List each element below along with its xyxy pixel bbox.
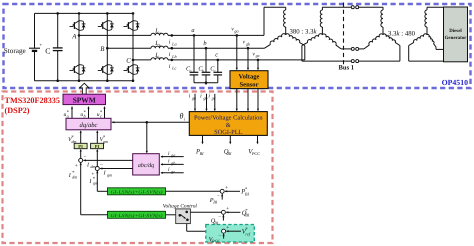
IGBT Q3 (phase B upper) [98, 21, 114, 31]
svg-text:SPWM: SPWM [73, 95, 96, 104]
svg-text:3.3k : 480: 3.3k : 480 [388, 30, 416, 37]
svg-text:c: c [159, 55, 161, 60]
wire Q*BI reference input [226, 211, 241, 213]
wire G2 output to S1 (I*dm) [80, 163, 108, 215]
node dot DC rail / cap top [56, 12, 59, 15]
wire u* gate reference [103, 106, 105, 118]
igc input label [168, 167, 175, 174]
current marker iLa [169, 34, 177, 46]
C label [45, 46, 50, 55]
vga label [231, 27, 238, 34]
I_dm label [86, 162, 95, 169]
svg-text:b: b [159, 43, 161, 48]
svg-text:ga: ga [234, 28, 238, 33]
wire iga measurement [194, 94, 196, 112]
svg-text:C: C [45, 46, 50, 55]
P*BI label [240, 187, 249, 197]
wire phase b from inverter to inductor [107, 47, 151, 49]
Q_BI feedback label [211, 218, 219, 226]
inverter leg 2 vertical wire [106, 13, 108, 80]
wire igb measurement [205, 94, 207, 112]
Voltage Sensor block [230, 71, 268, 89]
wire phase a after inductor [168, 34, 264, 36]
380:3.3k ratio label [290, 29, 318, 36]
wire vga sense tap [236, 35, 238, 70]
wire theta_i from PLL to dq/abc [112, 121, 190, 123]
svg-text:380 : 3.3k: 380 : 3.3k [290, 29, 318, 36]
svg-text:gb: gb [171, 160, 175, 165]
current marker iLb [169, 47, 177, 59]
S1 minus sign [83, 154, 86, 160]
PR controller G1 (active power loop) [108, 188, 166, 196]
node b dot [205, 47, 208, 50]
wire Q_BI feedback into S4 [222, 215, 224, 221]
svg-text:+: + [226, 206, 229, 212]
wire T2 primary top riser [382, 7, 384, 10]
3.3k:480 ratio label [388, 30, 416, 37]
svg-text:GI-LSN(s)+GI-SVN(s): GI-LSN(s)+GI-SVN(s) [111, 190, 163, 196]
vgc sense tap dot [257, 59, 260, 62]
svg-text:a: a [189, 68, 191, 73]
vgb label [243, 40, 250, 47]
node B dot [106, 47, 109, 50]
wire T2 primary riser to bottom link [399, 46, 401, 62]
storage battery branch wire upper [34, 13, 36, 48]
wire junction1 to PI1 [80, 149, 82, 159]
svg-text:OP4510: OP4510 [442, 78, 469, 87]
theta line junction dot [146, 121, 149, 124]
wire V*dm from PI1 to dq/abc [80, 130, 82, 143]
svg-text:c: c [215, 52, 218, 59]
wire voltage sensor output [236, 89, 238, 112]
I_qm label [103, 171, 112, 178]
wire phase c from inverter to inductor [133, 59, 151, 61]
node a dot [193, 34, 196, 37]
transformer T1 primary winding (wye) [265, 7, 305, 48]
node A label [71, 33, 77, 40]
capacitor Ca bottom wire [193, 75, 195, 83]
S2 plus sign [91, 171, 94, 177]
svg-text:b: b [202, 68, 204, 73]
wire V_PCC feedback into S5 [223, 234, 225, 239]
transformer T1 secondary winding (wye) [302, 7, 341, 49]
S5 minus sign [218, 234, 221, 239]
wire igb into abc/dq [160, 163, 183, 165]
wire DC bottom rail [35, 80, 134, 82]
wire V*ref reference input [226, 230, 241, 232]
capacitor Ca [190, 72, 199, 75]
svg-text:C: C [126, 58, 131, 65]
vga sense tap dot [236, 34, 239, 37]
wire I_qm from abc/dq to S2 [100, 167, 133, 169]
abc/dq block [133, 154, 160, 175]
capacitor Cc [214, 72, 223, 75]
wire Bus1 bottom link with breaker [302, 60, 400, 63]
wire vgb sense tap [247, 48, 249, 70]
igb label [200, 94, 207, 101]
igb input label [168, 159, 175, 166]
wire P_BI feedback into S3 [221, 194, 223, 200]
vgc label [252, 51, 259, 58]
svg-text:−: − [217, 194, 220, 199]
wire I_dm from abc/dq to S1 [83, 159, 133, 161]
summing junction S1 (d-axis current) [79, 158, 83, 162]
svg-text:La: La [171, 41, 176, 46]
svg-text:c: c [214, 68, 216, 73]
junction dot bottom rail [78, 79, 81, 82]
svg-text:Voltage: Voltage [238, 73, 259, 80]
wire vgc sense tap [257, 60, 259, 71]
DC-link capacitor branch wire lower [57, 51, 59, 81]
capacitor Cb bottom wire [205, 75, 207, 83]
OP4510 label [442, 78, 469, 87]
svg-text:Bus 1: Bus 1 [339, 65, 355, 72]
junction dot bottom rail [106, 79, 109, 82]
wire phase c after inductor [168, 59, 305, 61]
u*_b label [80, 109, 86, 118]
IGBT Q5 (phase C upper) [124, 21, 140, 31]
inductor Lc [151, 58, 168, 60]
u*_c label [97, 109, 103, 118]
wire switch lower input from V error [187, 224, 222, 232]
P_BI output label [195, 148, 204, 156]
mode selector switch SW1 [176, 209, 191, 224]
inductor La [151, 33, 168, 35]
svg-text:GI-LSN(s)+GI-SVN(s): GI-LSN(s)+GI-SVN(s) [111, 213, 163, 219]
svg-text:+: + [225, 185, 228, 191]
svg-text:Generator: Generator [445, 35, 468, 41]
Cb label [198, 66, 204, 74]
svg-text:Sensor: Sensor [239, 81, 258, 88]
TMS320F28335 DSP2 controller boundary (red dashed box) [3, 92, 273, 244]
V*ref label [242, 227, 251, 237]
wire Q_BI output [229, 135, 231, 144]
V_PCC feedback label [209, 236, 221, 244]
summing junction S4 (reactive power) [221, 210, 225, 214]
Bus 1 label [339, 65, 355, 72]
capacitor Cb [202, 72, 211, 75]
svg-text:SOGI-PLL: SOGI-PLL [214, 129, 242, 136]
wire capacitor common bus [194, 82, 218, 84]
wire junction2 to PI2 [96, 149, 98, 167]
svg-text:a: a [191, 27, 194, 34]
voltage reference box (teal dashed) [206, 225, 255, 243]
svg-text:Lb: Lb [171, 54, 176, 59]
PI controller PI2 [91, 143, 104, 149]
svg-text:−: − [100, 162, 103, 168]
wire T1 secondary riser to bottom link [301, 46, 303, 62]
wire T2 secondary left riser + bottom link [409, 46, 444, 62]
capacitor Ca top wire [193, 35, 195, 72]
svg-text:dq/abc: dq/abc [80, 122, 98, 129]
node c dot [217, 59, 220, 62]
svg-text:BI: BI [227, 151, 232, 156]
wire DC top rail [35, 12, 134, 14]
svg-text:gb: gb [203, 95, 207, 100]
transformer T2 secondary winding (wye) [409, 7, 436, 47]
storage battery branch wire lower [34, 51, 36, 81]
wire G1 output to S2 (I*qm) [96, 171, 107, 192]
S4 plus sign [226, 206, 229, 212]
svg-text:BI: BI [213, 200, 218, 205]
node B label [100, 46, 104, 53]
transformer T2 primary winding (wye) [364, 7, 400, 49]
Q*BI label [242, 208, 250, 218]
Voltage Control label [163, 203, 198, 209]
wire igc measurement [214, 94, 216, 112]
wire theta_i to abc/dq [146, 122, 148, 153]
node c label [215, 52, 218, 59]
svg-text:a: a [159, 30, 161, 35]
current marker iLc [169, 59, 177, 71]
wire T2 secondary top link [427, 6, 444, 8]
PR controller G2 (reactive/voltage loop) [108, 211, 166, 219]
summing junction S5 (voltage loop) [222, 229, 226, 233]
wire T1 primary phase-c riser [304, 46, 306, 60]
Lc label [154, 52, 161, 60]
node b label [203, 40, 206, 47]
TMS320F28335 (DSP2) label [5, 96, 61, 115]
vgb sense tap dot [247, 47, 250, 50]
node dot DC rail / cap bottom [56, 79, 59, 82]
svg-text:+: + [75, 163, 78, 169]
inductor Lb [151, 46, 168, 48]
S1 plus sign [75, 163, 78, 169]
wire V*qm from PI2 to dq/abc [96, 130, 98, 143]
capacitor C (DC link) [53, 48, 63, 51]
svg-text:PCC: PCC [251, 151, 260, 156]
svg-text:−: − [83, 154, 86, 160]
svg-text:ga: ga [171, 153, 175, 158]
dq/abc block [66, 118, 111, 130]
svg-text:PI: PI [78, 144, 83, 149]
svg-text:Lc: Lc [171, 66, 176, 71]
V_PCC output label [248, 148, 260, 156]
Lb label [154, 40, 161, 48]
node A dot [78, 34, 81, 37]
wire u* gate reference [87, 106, 89, 118]
gate signal hollow arrow SPWM to inverter [80, 83, 89, 94]
wire phase b after inductor [168, 47, 265, 49]
wire T2 secondary right link [436, 47, 444, 49]
svg-text:PCC: PCC [211, 239, 220, 244]
svg-text:TMS320F28335: TMS320F28335 [5, 96, 61, 105]
svg-text:&: & [226, 122, 231, 129]
inverter leg 3 vertical wire [132, 13, 134, 80]
DC-link capacitor branch wire upper [57, 13, 59, 48]
svg-text:+: + [226, 225, 229, 231]
IGBT Q1 (phase A upper) [70, 21, 86, 31]
summing junction S2 (q-axis current) [95, 167, 99, 171]
wire u* gate reference [71, 106, 73, 118]
IGBT Q4 (phase B lower) [98, 65, 114, 75]
inverter leg 1 vertical wire [78, 13, 80, 80]
svg-text:+: + [39, 44, 42, 49]
S4 minus sign [218, 215, 221, 220]
wire phase a from inverter to inductor [79, 34, 151, 36]
wire Bus1 middle link with breaker [341, 47, 364, 50]
wire voltage sensor output [257, 89, 259, 112]
OP4510 real-time simulator boundary (blue dashed box) [4, 4, 471, 88]
Diesel Generator box [444, 7, 468, 62]
capacitor Cc bottom wire [217, 75, 219, 83]
S5 plus sign [226, 225, 229, 231]
igc label [208, 94, 215, 101]
svg-text:−: − [218, 215, 221, 220]
junction dot top rail [106, 12, 109, 15]
junction dot top rail [132, 12, 135, 15]
Bus 1 dashed busbar [343, 3, 345, 65]
iga input label [168, 151, 175, 158]
wire iga into abc/dq [160, 156, 183, 158]
Ca label [186, 66, 192, 74]
SPWM block [63, 94, 106, 104]
svg-text:dm: dm [72, 175, 77, 180]
svg-text:(DSP2): (DSP2) [5, 106, 30, 115]
svg-text:BI: BI [200, 151, 205, 156]
wire G2 input from switch [166, 214, 176, 216]
junction dot bottom rail [132, 79, 135, 82]
theta_i label [180, 112, 186, 122]
node C dot [132, 59, 135, 62]
svg-text:gb: gb [246, 41, 250, 46]
wire Bus1 top link with breaker [322, 6, 383, 9]
I*qm label [88, 176, 97, 186]
svg-text:A: A [71, 33, 77, 40]
svg-text:Storage: Storage [4, 47, 26, 55]
svg-text:BI: BI [245, 213, 250, 218]
Storage label [4, 47, 26, 55]
node a label [191, 27, 194, 34]
IGBT Q6 (phase C lower) [124, 65, 140, 75]
svg-text:b: b [203, 40, 206, 47]
wire igc into abc/dq [160, 172, 183, 174]
summing junction S3 (active power) [220, 189, 224, 193]
Power/Voltage Calculation & SOGI-PLL block U2 [189, 112, 267, 136]
Q_BI output label [224, 148, 232, 156]
PI controller PI1 [74, 143, 87, 149]
node C label [126, 58, 131, 65]
svg-text:abc/dq: abc/dq [138, 162, 154, 169]
svg-text:Diesel: Diesel [449, 28, 462, 34]
S3 minus sign [217, 194, 220, 199]
La label [154, 28, 161, 36]
svg-text:BI: BI [245, 191, 250, 196]
junction dot top rail [78, 12, 81, 15]
svg-text:PI: PI [95, 144, 100, 149]
wire P_BI output [201, 135, 203, 144]
IGBT Q2 (phase A lower) [70, 65, 86, 75]
svg-text:gc: gc [256, 53, 260, 58]
I*dm label [68, 170, 77, 180]
wire voltage sensor output [247, 89, 249, 112]
svg-text:dm: dm [90, 164, 95, 169]
svg-text:gc: gc [171, 169, 175, 174]
S3 plus sign [225, 185, 228, 191]
wire T1 primary top link [264, 7, 286, 35]
svg-text:Power/Voltage Calculation: Power/Voltage Calculation [194, 115, 263, 122]
S2 minus sign [100, 162, 103, 168]
P_BI feedback label [209, 197, 218, 205]
capacitor bus junction dot [205, 81, 208, 84]
V*dm label [68, 134, 76, 144]
svg-text:ga: ga [192, 95, 196, 100]
capacitor Cb top wire [205, 48, 207, 72]
iga label [189, 94, 196, 101]
svg-text:qm: qm [93, 181, 98, 186]
svg-text:qm: qm [107, 172, 112, 177]
u*_a label [64, 109, 70, 118]
wire P*BI reference input [225, 190, 240, 192]
battery (Storage) [29, 44, 42, 51]
wire V_PCC output [256, 135, 258, 144]
svg-text:gc: gc [212, 95, 216, 100]
svg-text:B: B [100, 46, 104, 53]
Cc label [210, 66, 215, 74]
V*qm label [100, 134, 108, 144]
wire G1 input from P summing junction [166, 190, 221, 192]
capacitor Cc top wire [217, 60, 219, 72]
wire switch to Q summing junction [190, 211, 221, 213]
